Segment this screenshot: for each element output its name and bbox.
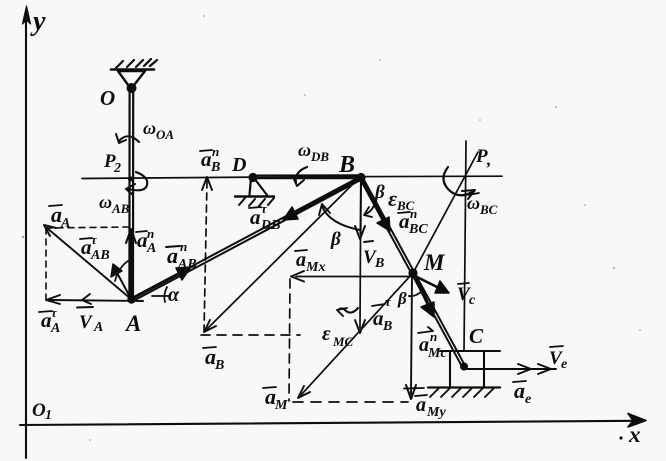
svg-text:A: A xyxy=(124,311,141,336)
svg-text:B: B xyxy=(214,358,224,373)
node M xyxy=(408,268,417,277)
svg-text:n: n xyxy=(147,226,154,241)
svg-text:DB: DB xyxy=(310,149,329,164)
svg-text:D: D xyxy=(231,154,246,176)
x axis xyxy=(20,421,640,425)
svg-text:AB: AB xyxy=(177,257,197,272)
svg-text:ω: ω xyxy=(143,118,156,138)
vector a_DB^tau (thick along BA from B) xyxy=(290,179,359,216)
svg-text:AB: AB xyxy=(90,248,110,263)
line M to P1 xyxy=(413,152,478,273)
svg-text:ω: ω xyxy=(298,140,311,160)
svg-text:My: My xyxy=(426,405,446,420)
angle beta at M xyxy=(409,290,423,296)
node C xyxy=(460,363,468,371)
omega_DB curved arrow xyxy=(296,167,307,183)
node B xyxy=(356,173,365,182)
vector a_AB^n (thick along AB from A) xyxy=(133,271,184,298)
svg-text:1: 1 xyxy=(45,408,52,423)
svg-text:BC: BC xyxy=(396,198,415,213)
svg-text:DB: DB xyxy=(260,218,280,233)
dashed horizontal y=402 xyxy=(293,401,408,403)
vector V_A (left from A) xyxy=(49,300,143,301)
epsilon_MC squiggle arrow xyxy=(338,308,358,313)
vector a_M (from M down-left) xyxy=(301,274,412,395)
link BC through M (double line) xyxy=(362,177,465,367)
angle beta at B (small) xyxy=(366,199,376,214)
vector a_MC^n thick arrow on link MC xyxy=(415,277,429,306)
svg-text:β: β xyxy=(374,182,385,203)
vector a_A^n (up along rod) xyxy=(130,233,132,296)
svg-text:ω: ω xyxy=(99,192,112,212)
svg-text:B: B xyxy=(382,319,392,334)
svg-text:n: n xyxy=(180,239,187,254)
svg-text:AB: AB xyxy=(111,201,130,216)
vector a_BC^n (thick along BM from B) xyxy=(362,180,386,224)
svg-text:α: α xyxy=(168,284,180,306)
vector a_AB^tau (short, up-left of A) xyxy=(115,269,130,297)
svg-text:M: M xyxy=(423,250,446,275)
svg-text:n: n xyxy=(430,329,437,344)
vector V_B (down from B) xyxy=(359,180,362,234)
label a_MC^n xyxy=(418,327,433,333)
svg-text:ω: ω xyxy=(467,193,480,213)
svg-text:A: A xyxy=(50,321,60,336)
vector a_A xyxy=(47,228,131,299)
dashed horizontal at y=335 xyxy=(201,334,300,336)
vectors V_e and a_e (right from C) xyxy=(467,368,556,370)
omega_AB curved arrow xyxy=(129,172,147,190)
omega_OA curved arrow xyxy=(119,136,139,142)
link OA (double line) xyxy=(128,90,130,299)
dashed vertical x=288 xyxy=(289,279,290,401)
vector V_c (thick from M down-right) xyxy=(415,276,441,289)
y axis xyxy=(25,12,27,458)
horizontal construction line through P2 D B P1 xyxy=(82,176,502,178)
svg-text:O: O xyxy=(100,86,115,110)
svg-text:e: e xyxy=(561,357,567,372)
angle beta at B (large arc) xyxy=(322,206,360,230)
svg-text:V: V xyxy=(79,312,93,333)
svg-text:O: O xyxy=(32,400,46,421)
svg-text:Mx: Mx xyxy=(305,260,325,275)
slider support at C xyxy=(440,350,500,352)
svg-text:2: 2 xyxy=(113,161,121,176)
svg-text:y: y xyxy=(30,6,46,37)
node A xyxy=(127,295,135,303)
svg-text:e: e xyxy=(525,392,531,407)
svg-text:n: n xyxy=(212,144,219,159)
angle alpha at A xyxy=(152,295,170,297)
svg-text:,: , xyxy=(486,150,491,169)
svg-text:x: x xyxy=(628,422,641,447)
vertical construction line through P1 down to C xyxy=(464,141,466,351)
svg-text:B: B xyxy=(374,256,384,271)
svg-text:B: B xyxy=(338,152,355,178)
pivot support at D xyxy=(248,173,257,182)
svg-text:BC: BC xyxy=(408,222,428,237)
svg-text:B: B xyxy=(210,160,220,175)
svg-text:M: M xyxy=(274,398,288,413)
vector a_Mx (left from M) xyxy=(296,276,411,278)
svg-text:Mc: Mc xyxy=(427,346,447,361)
svg-text:OA: OA xyxy=(156,127,174,142)
node O xyxy=(128,87,134,93)
svg-text:ε: ε xyxy=(322,321,331,345)
svg-text:a: a xyxy=(416,394,426,416)
dashed vertical from a_B tip up to line (a_B^n) xyxy=(204,181,207,332)
pin support at O xyxy=(111,68,154,71)
vertical line continues to a_B^tau arrow xyxy=(359,239,362,328)
svg-text:A: A xyxy=(60,216,70,231)
svg-text:BC: BC xyxy=(479,202,498,217)
dashed box for a_A xyxy=(46,227,129,228)
svg-text:β: β xyxy=(397,289,407,308)
svg-text:C: C xyxy=(469,324,484,348)
vector a_My (down from M) xyxy=(411,276,412,394)
svg-text:A: A xyxy=(146,241,156,256)
svg-text:A: A xyxy=(93,320,103,335)
svg-text:c: c xyxy=(469,293,476,308)
svg-text:β: β xyxy=(330,229,341,250)
omega_BC curved arrow (big arc at P1) xyxy=(443,167,472,195)
link DB (double line) xyxy=(252,174,361,176)
vector a_B (from B down-left) xyxy=(207,177,360,329)
svg-text:ε: ε xyxy=(388,186,397,211)
svg-text:a: a xyxy=(296,249,306,271)
link AB (double line) xyxy=(131,176,361,298)
